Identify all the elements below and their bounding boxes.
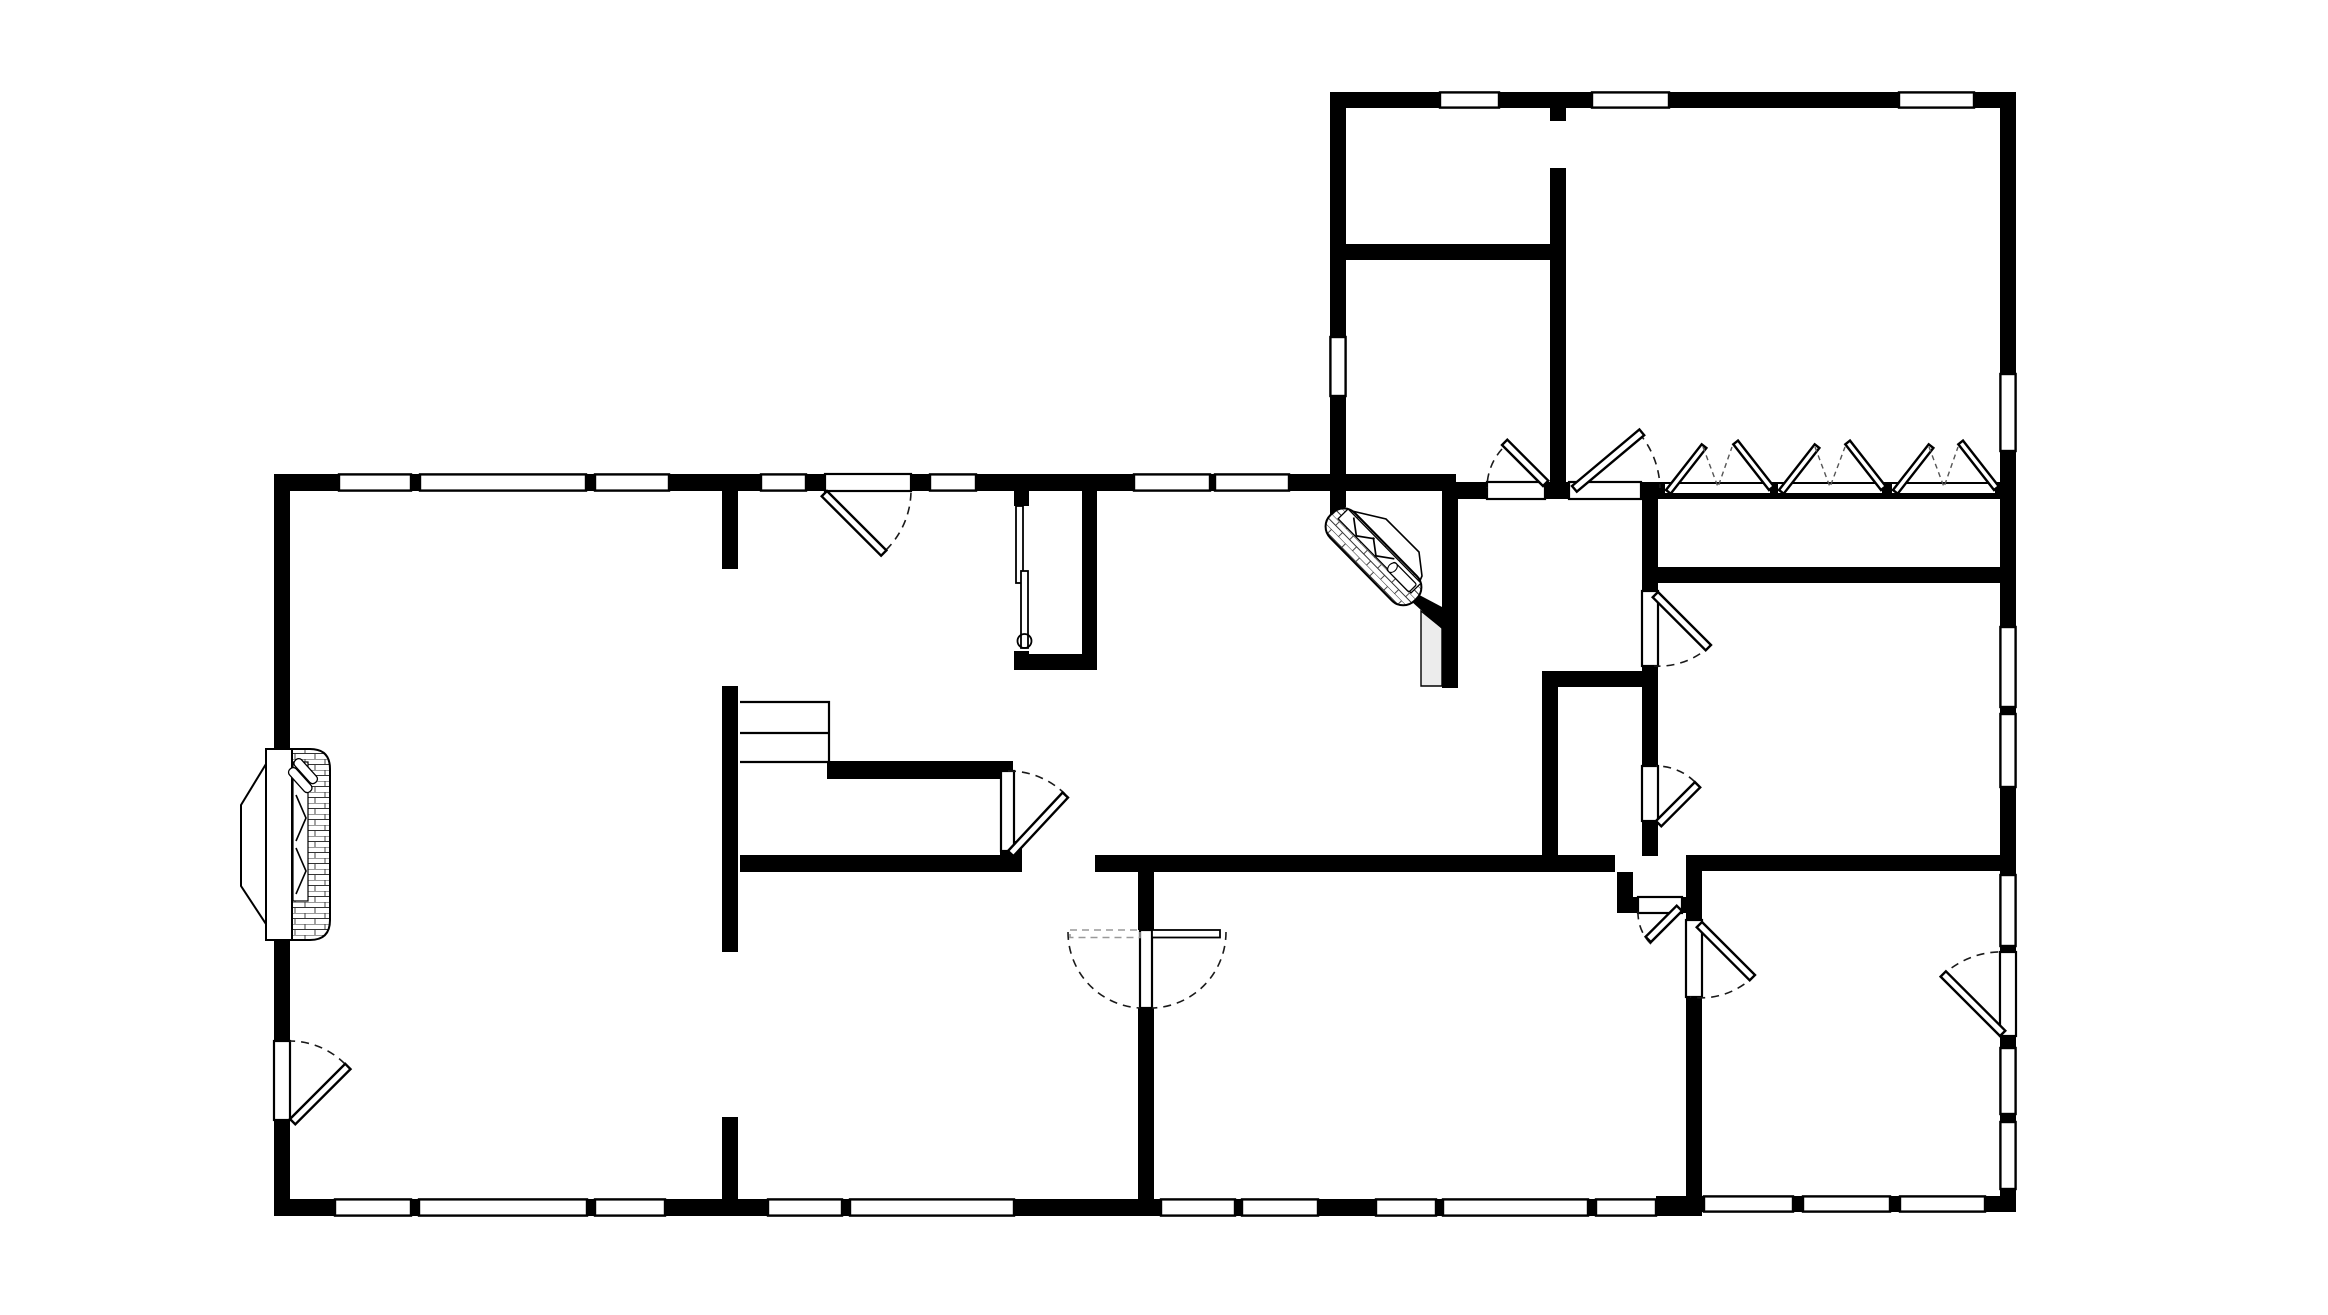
door: front entry leaf: [822, 491, 887, 556]
interior wall: bedroom top: [1686, 855, 2016, 871]
interior wall: dining-kitchen divider upper: [1138, 866, 1154, 930]
window: right wall 3: [2000, 714, 2015, 787]
interior wall: living-dining stub top: [722, 491, 738, 569]
interior wall: vestibule right mid: [1642, 666, 1658, 766]
door: garage door B leaf: [1572, 429, 1644, 491]
interior wall: pantry left bottom: [1014, 651, 1029, 670]
bifold door bay 3 sill: [1891, 483, 1996, 494]
door: bedroom exterior arc: [1941, 952, 2004, 977]
window: bottom wall 3: [595, 1199, 665, 1215]
door: vestibule-living arc: [1654, 645, 1711, 666]
exterior wall: upper-right band bottom: [1456, 482, 2016, 499]
interior wall: wardrobe bottom: [1656, 567, 2000, 583]
door: stair hall arc: [1008, 771, 1065, 794]
window: right wall 4: [2000, 875, 2015, 946]
window: right wall 2: [2000, 627, 2015, 707]
bifold door bay 2 fold dashes: [1815, 447, 1845, 487]
window: right wall 5: [2000, 1048, 2015, 1114]
interior wall: pantry left top: [1014, 491, 1029, 506]
door: double-action open leaf: [1152, 930, 1220, 938]
door: double-action phantom leaf: [1070, 930, 1140, 938]
exterior wall: garage top: [1332, 92, 2016, 108]
window: bottom wall 7: [1242, 1199, 1318, 1215]
corner fireplace: wall miter bottom: [1408, 589, 1442, 629]
door: bedroom exterior leaf: [1941, 971, 2006, 1036]
window: top wall 1: [339, 474, 411, 490]
door: stair hall door sill: [1001, 771, 1014, 851]
interior wall: pantry right: [1082, 491, 1097, 670]
interior wall: bedroom left upper: [1686, 855, 1702, 920]
interior wall: garage divider vertical: [1550, 168, 1566, 482]
chimney flue (gray): [1421, 611, 1442, 686]
door: nook arc: [1638, 911, 1651, 944]
door: front entry sill: [825, 474, 911, 491]
door: bedroom arc: [1690, 975, 1755, 998]
exterior wall: left: [274, 474, 290, 1216]
window: garage left wall: [1330, 337, 1345, 396]
bifold door bay 2 left panel: [1779, 444, 1819, 493]
exterior wall: main top: [274, 474, 1456, 491]
interior wall: garage divider vertical stub: [1550, 108, 1566, 121]
door: double-action door jamb: [1140, 930, 1152, 1008]
interior wall: nook wall: [1631, 897, 1686, 913]
interior wall: closet top: [1542, 671, 1658, 687]
interior wall: bedroom left lower: [1686, 997, 1702, 1207]
exterior wall: bottom bedroom: [1686, 1196, 2016, 1212]
door: garage door A sill: [1487, 482, 1545, 499]
interior wall: bedroom bottom-left corner block: [1656, 1196, 1702, 1216]
left fireplace brick box: [292, 749, 330, 940]
stairs: [740, 702, 829, 762]
interior wall: garage divider horizontal: [1346, 244, 1566, 260]
window: bottom wall 2: [419, 1199, 587, 1215]
door: garage door A leaf: [1502, 440, 1548, 486]
interior wall: stair landing bar: [827, 761, 1013, 779]
bifold door bay 3 left panel: [1893, 444, 1933, 493]
window: garage top 1: [1440, 92, 1499, 107]
door: living exterior leaf: [290, 1064, 351, 1125]
window: top wall 6: [1134, 474, 1210, 490]
bifold door bay 1 sill: [1664, 483, 1771, 494]
bifold door bay 2 right panel: [1845, 441, 1885, 490]
window: top wall 5: [930, 474, 976, 490]
pantry sliding panel A: [1016, 506, 1023, 583]
door: front entry arc: [886, 491, 911, 550]
exterior wall: garage left: [1330, 92, 1346, 500]
pier between garage doors: [1456, 482, 1487, 499]
window: top wall 3: [595, 474, 669, 490]
window: right wall 6: [2000, 1122, 2015, 1189]
interior wall: kitchen right / fireplace wall: [1442, 490, 1458, 688]
interior wall: door post below landing: [1000, 841, 1022, 872]
door: living exterior door sill: [274, 1041, 290, 1120]
interior wall: hall wall right: [1095, 855, 1615, 872]
interior wall: living-dining mid: [722, 686, 738, 952]
bifold door bay 1 right panel: [1733, 441, 1773, 490]
window: bedroom bottom 2: [1803, 1196, 1890, 1211]
left fireplace hearth band: [266, 749, 292, 940]
window: bottom wall 9: [1443, 1199, 1588, 1215]
interior wall: pantry bottom: [1014, 654, 1097, 670]
window: top wall 4: [761, 474, 806, 490]
window: garage top 3: [1899, 92, 1974, 107]
bifold door bay 3 fold dashes: [1929, 447, 1958, 487]
door: garage door B arc: [1639, 433, 1660, 488]
window: garage top 2: [1592, 92, 1669, 107]
door: closet-living leaf: [1656, 782, 1700, 826]
door: garage door A arc: [1487, 449, 1502, 488]
interior wall: living-dining bottom stub: [722, 1117, 738, 1199]
window: right wall 1: [2000, 374, 2015, 451]
door: closet-living door sill: [1642, 766, 1658, 821]
window: bottom wall 4: [768, 1199, 842, 1215]
door: stair hall leaf: [1008, 793, 1068, 857]
interior wall: dining-kitchen divider lower: [1138, 1008, 1154, 1199]
bifold door bay 1 fold dashes: [1703, 447, 1732, 487]
door: living exterior arc: [290, 1041, 345, 1064]
interior wall: nook stub: [1617, 872, 1633, 913]
interior wall: vestibule right upper: [1642, 499, 1658, 591]
interior wall: vestibule right lower: [1642, 821, 1658, 856]
door: bedroom leaf: [1697, 922, 1755, 980]
door: double-action arc right: [1152, 932, 1226, 1008]
bifold door bay 1 left panel: [1666, 444, 1706, 493]
door: bedroom door sill: [1686, 920, 1702, 997]
window: bedroom bottom 3: [1900, 1196, 1985, 1211]
left fireplace andirons: [296, 795, 306, 894]
interior wall: closet left: [1542, 671, 1558, 856]
window: bedroom bottom 1: [1704, 1196, 1793, 1211]
door: bedroom exterior door sill: [2000, 952, 2016, 1036]
left fireplace logs: [285, 757, 321, 794]
door: garage door B sill: [1569, 482, 1641, 499]
interior wall: hall wall left: [740, 855, 1022, 872]
window: bottom wall 8: [1376, 1199, 1436, 1215]
corner fireplace hearth: [1352, 511, 1422, 599]
pantry door knob: [1018, 634, 1032, 648]
door: closet-living arc: [1656, 766, 1695, 782]
window: bottom wall 10: [1596, 1199, 1656, 1215]
exterior wall: bottom main: [274, 1199, 1702, 1216]
door: vestibule-living door sill: [1642, 591, 1658, 666]
window: top wall 2: [420, 474, 586, 490]
window: bottom wall 6: [1161, 1199, 1235, 1215]
window: top wall 7: [1215, 474, 1289, 490]
window: bottom wall 5: [850, 1199, 1014, 1215]
bifold door bay 2 sill: [1777, 483, 1883, 494]
window: bottom wall 1: [335, 1199, 411, 1215]
left fireplace inner panel: [293, 762, 308, 901]
door: nook leaf: [1646, 906, 1682, 942]
door: nook door sill: [1638, 897, 1682, 913]
corner fireplace firebox: [1319, 502, 1428, 612]
left fireplace outer protrusion: [241, 764, 266, 924]
pantry sliding panel B: [1021, 571, 1028, 648]
door: double-action arc left: [1068, 932, 1140, 1008]
bifold door bay 3 right panel: [1958, 441, 1998, 490]
door: vestibule-living leaf: [1653, 592, 1711, 650]
exterior wall: right: [2000, 92, 2016, 1212]
